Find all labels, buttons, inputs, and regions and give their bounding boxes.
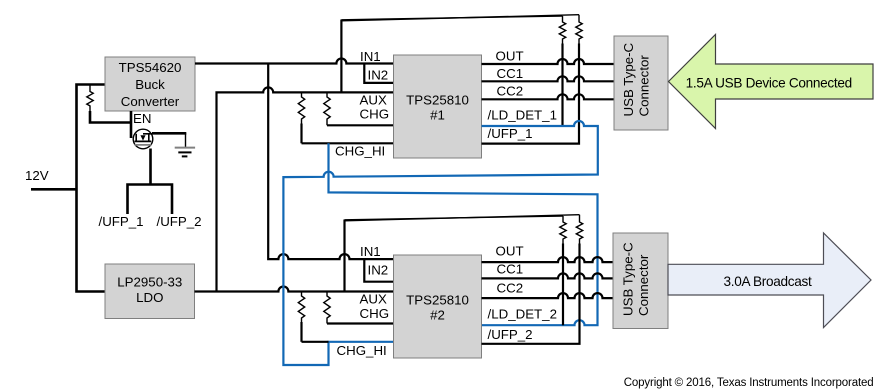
svg-text:CC2: CC2 xyxy=(497,281,524,296)
wire LDO out to AUX chip2 xyxy=(195,287,394,292)
wire EN xyxy=(130,111,133,138)
op-amp U4 TPS25810 #2 xyxy=(394,255,482,358)
wire /UFP_1 chip1 xyxy=(482,44,580,144)
svg-text:IN1: IN1 xyxy=(360,49,381,64)
svg-text:#2: #2 xyxy=(430,308,445,323)
resistor R10 pull-up LD_DET_2 xyxy=(560,216,566,325)
wire IN2 chip2 xyxy=(364,259,393,282)
wire slant A chip2 xyxy=(345,216,564,220)
wire 12V bus xyxy=(77,85,106,292)
ground GND1 xyxy=(175,148,195,157)
svg-text:IN2: IN2 xyxy=(368,263,389,278)
svg-text:/UFP_1: /UFP_1 xyxy=(99,214,144,229)
transistor Q1 MOSFET xyxy=(133,129,153,149)
connector J1 USB Type-C top xyxy=(614,36,668,130)
svg-text:Copyright © 2016, Texas Instru: Copyright © 2016, Texas Instruments Inco… xyxy=(624,377,874,389)
resistor R6 pull-up LD_DET_1 xyxy=(559,16,565,126)
svg-text:CHG: CHG xyxy=(360,306,390,321)
svg-text:AUX: AUX xyxy=(360,292,387,307)
resistor R5 CHG chip1 xyxy=(324,92,330,125)
wire IN2 chip1 xyxy=(364,64,393,83)
svg-text:TPS54620: TPS54620 xyxy=(119,60,182,75)
wire slant B chip2 xyxy=(345,215,580,221)
resistor R4 AUX chip1 xyxy=(298,92,304,143)
svg-text:TPS25810: TPS25810 xyxy=(406,293,469,308)
svg-text:CHG_HI: CHG_HI xyxy=(337,343,387,358)
svg-text:TPS25810: TPS25810 xyxy=(406,93,469,108)
svg-text:12V: 12V xyxy=(25,168,49,183)
svg-text:IN1: IN1 xyxy=(360,244,381,259)
svg-text:Connector: Connector xyxy=(636,254,651,316)
svg-text:EN: EN xyxy=(133,111,151,126)
arrow 3.0A Broadcast xyxy=(668,233,871,328)
svg-text:CC2: CC2 xyxy=(497,84,524,99)
svg-text:/UFP_2: /UFP_2 xyxy=(157,214,202,229)
wire slant B chip1 xyxy=(341,15,579,21)
wire CC1 chip1 xyxy=(482,76,615,81)
wire AUX chip1 from LDO xyxy=(217,87,394,291)
wire OUT chip1 xyxy=(482,59,615,64)
wire slant riser chip2 xyxy=(343,220,345,292)
wire /UFP_2 chip2 xyxy=(482,244,580,344)
svg-text:CC1: CC1 xyxy=(497,66,524,81)
svg-text:LP2950-33: LP2950-33 xyxy=(117,275,182,290)
svg-text:/UFP_1: /UFP_1 xyxy=(488,126,533,141)
wire buck OUT to IN1 chip1 xyxy=(195,59,394,64)
buck converter U1 TPS54620 xyxy=(105,57,195,111)
svg-text:1.5A USB Device Connected: 1.5A USB Device Connected xyxy=(686,75,852,90)
svg-text:USB Type-C: USB Type-C xyxy=(621,42,636,116)
wire slant A chip1 xyxy=(341,16,562,20)
resistor R8 AUX chip2 xyxy=(298,292,304,342)
svg-text:/UFP_2: /UFP_2 xyxy=(488,327,533,342)
resistor R9 CHG chip2 xyxy=(324,292,330,324)
wire OUT chip2 xyxy=(482,257,614,262)
wire slant riser chip1 xyxy=(340,20,342,93)
wire CC2 chip1 xyxy=(482,94,615,99)
svg-text:/LD_DET_2: /LD_DET_2 xyxy=(488,306,557,321)
wire CHG_HI chip2 black part xyxy=(302,341,329,343)
resistor R11 pull-up UFP_2 xyxy=(576,215,582,244)
wire blue CHG_HI_1 to /LD_DET_2 xyxy=(329,143,598,325)
wire CC1 chip2 xyxy=(482,273,614,278)
wire CHG_HI chip1 xyxy=(302,142,394,144)
svg-text:LDO: LDO xyxy=(136,290,163,305)
svg-text:CHG: CHG xyxy=(360,107,390,122)
svg-text:AUX: AUX xyxy=(360,93,387,108)
wire Q1 source down xyxy=(149,149,152,185)
svg-text:CHG_HI: CHG_HI xyxy=(335,143,385,158)
wire CC2 chip2 xyxy=(482,293,614,298)
wire CHG chip2 xyxy=(327,322,394,324)
wire IN1 feed chip2 xyxy=(268,64,393,260)
svg-text:/LD_DET_1: /LD_DET_1 xyxy=(488,108,557,123)
arrow 1.5A USB Device Connected xyxy=(669,35,874,129)
connector J2 USB Type-C bottom xyxy=(613,233,668,329)
wire blue /LD_DET_1 to CHG_HI_2 xyxy=(283,121,597,365)
resistor R3 EN pull-up xyxy=(87,85,131,123)
regulator U2 LP2950-33 LDO xyxy=(105,264,195,319)
svg-text:OUT: OUT xyxy=(496,243,524,258)
op-amp U3 TPS25810 #1 xyxy=(394,55,482,158)
svg-text:IN2: IN2 xyxy=(368,68,389,83)
svg-text:Converter: Converter xyxy=(121,94,180,109)
svg-text:#1: #1 xyxy=(430,108,445,123)
svg-text:OUT: OUT xyxy=(496,49,524,64)
wire UFP split xyxy=(128,185,173,215)
svg-text:CC1: CC1 xyxy=(497,261,524,276)
wire CHG chip1 xyxy=(327,124,394,126)
resistor R7 pull-up UFP_1 xyxy=(576,15,582,44)
svg-text:Connector: Connector xyxy=(636,55,651,117)
svg-text:Buck: Buck xyxy=(135,77,165,92)
svg-text:USB Type-C: USB Type-C xyxy=(621,242,636,316)
wire 12V stub xyxy=(31,188,77,191)
wire Q1 drain to ground xyxy=(152,132,186,135)
svg-text:3.0A Broadcast: 3.0A Broadcast xyxy=(724,274,813,289)
